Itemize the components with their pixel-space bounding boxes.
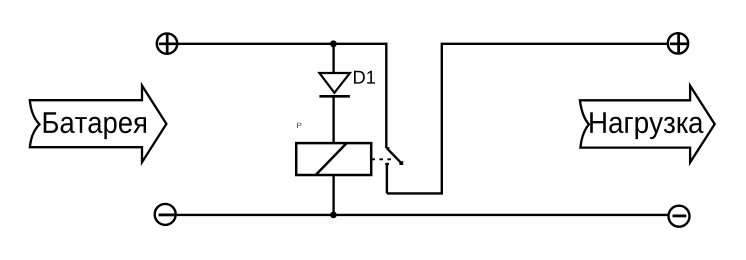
wire switch top lead [385,43,387,149]
terminal - battery negative [155,204,176,225]
wire switch to right riser [387,192,442,194]
wire diode cathode to relay coil [332,96,334,143]
switch fixed contact [385,163,389,165]
wire top left rail [177,43,387,45]
relay coil P [296,123,371,175]
wire bottom rail [176,214,669,216]
wire top right rail [442,43,668,45]
terminal + battery positive [157,33,177,54]
diode D1 [319,71,375,97]
node junction top [330,40,337,47]
battery block arrow [30,86,167,163]
switch blade [386,148,403,165]
wire relay coil to bottom rail [332,175,334,215]
load block arrow [580,86,715,163]
wire diode anode [332,44,334,73]
dashed actuator link [371,158,392,160]
wire right riser [441,43,443,195]
wire switch bottom lead [386,164,388,194]
terminal + load positive [668,33,688,54]
node junction bottom [330,212,337,219]
terminal - load negative [669,206,690,227]
